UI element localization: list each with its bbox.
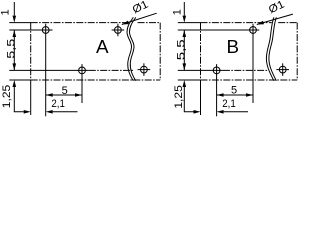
svg-text:5: 5 (231, 85, 237, 97)
svg-text:B: B (227, 36, 240, 57)
dimension 1,25 B: arrow and shaft (183, 80, 187, 87)
hole A bottom col4 (141, 66, 148, 73)
hole A top col3 (115, 27, 122, 34)
bottom hole row line A (9, 69, 89, 71)
dimension 1,25 A: arrow and shaft (13, 80, 17, 87)
bottom row cross at col3 B (276, 69, 289, 71)
hole B bottom col3 (279, 66, 286, 73)
extension line B left edge below (200, 80, 202, 115)
dimension 1 B: shaft and arrow (183, 2, 185, 16)
extension line B top edge (178, 22, 201, 24)
dimension 2,1 A left arrow (24, 110, 31, 114)
hole B top col2 (250, 27, 257, 34)
bottom row centerline B (dash-dot to break) (223, 69, 268, 71)
svg-text:2,1: 2,1 (222, 98, 236, 110)
column line col2 A (81, 64, 83, 103)
column line col4 A (143, 63, 145, 76)
outline B right edge (dash-dot) (296, 23, 298, 80)
extension line A left edge below (30, 80, 32, 115)
column line col1 A (45, 24, 47, 117)
outline B left edge (dash-dot) (200, 23, 202, 80)
dimension 2,1 B right arrow and line (217, 110, 224, 114)
outline A right edge (dash-dot) (159, 23, 161, 80)
outline A left edge (dash-dot) (30, 23, 32, 80)
break line B (double wavy) (269, 17, 277, 81)
column line col3 A (117, 24, 119, 37)
break line A (double wavy) (129, 17, 135, 81)
column line col3 B (282, 63, 284, 76)
svg-text:1: 1 (172, 9, 184, 15)
dimension 2,1 B left arrow (194, 110, 201, 114)
bottom row cross at col4 A (138, 69, 151, 71)
bottom hole row line B (178, 69, 223, 71)
svg-text:5: 5 (62, 85, 68, 97)
svg-text:1,25: 1,25 (173, 85, 185, 109)
extension line A bottom edge (9, 79, 31, 81)
top row cross at col3 A (112, 29, 125, 31)
outline B top edge (dash-dot) (201, 22, 272, 24)
hole B bottom col1 (213, 67, 220, 74)
bottom row centerline A (dash-dot to break) (89, 69, 134, 71)
leader line Ø1 B (257, 14, 293, 24)
svg-text:A: A (96, 36, 109, 57)
dimension 5 B line and arrows (217, 94, 253, 96)
column line col1 B (216, 64, 218, 116)
outline A bottom edge (dash-dot) (31, 79, 161, 81)
svg-text:2,1: 2,1 (51, 98, 65, 110)
svg-text:5,5: 5,5 (176, 39, 188, 60)
top hole row line B (178, 29, 259, 31)
extension line A top edge (9, 22, 31, 24)
svg-text:5,5: 5,5 (6, 39, 18, 59)
dimension 1 A: shaft and arrow (13, 2, 15, 16)
extension line B bottom edge (178, 79, 201, 81)
outline B bottom edge (dash-dot) (201, 79, 298, 81)
svg-text:1: 1 (0, 9, 11, 15)
svg-text:1,25: 1,25 (1, 85, 13, 109)
hole A top col1 (42, 27, 49, 34)
leader line Ø1 A (122, 13, 157, 24)
hole A bottom col2 (79, 67, 86, 74)
outline A top edge (dash-dot) (31, 22, 130, 24)
dimension 5,5 A: line and arrows (13, 30, 15, 70)
dimension 5,5 B: line and arrows (183, 30, 185, 70)
top hole row line A (9, 29, 52, 31)
dimension 5 A line and arrows (46, 94, 82, 96)
column line col2 B (252, 24, 254, 103)
dimension 2,1 A right arrow and line (46, 110, 53, 114)
